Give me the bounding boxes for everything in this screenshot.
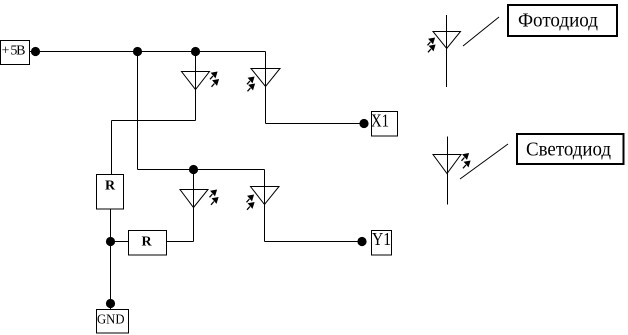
svg-text:+ 5В: + 5В (2, 44, 26, 59)
svg-text:Y1: Y1 (372, 229, 391, 249)
svg-text:Фотодиод: Фотодиод (518, 10, 598, 32)
svg-text:X1: X1 (371, 111, 389, 131)
svg-text:R: R (141, 235, 152, 250)
svg-text:R: R (105, 179, 116, 194)
svg-text:Светодиод: Светодиод (526, 139, 611, 161)
svg-text:GND: GND (97, 313, 125, 328)
